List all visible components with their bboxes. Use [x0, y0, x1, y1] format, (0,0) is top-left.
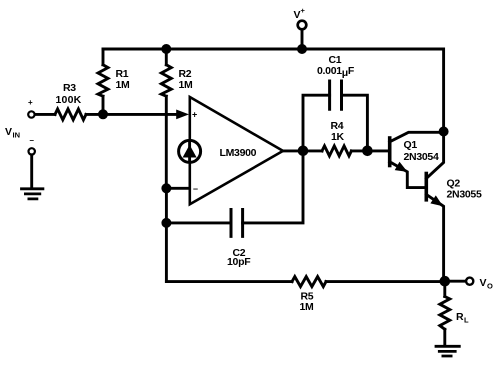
svg-text:1M: 1M [116, 79, 131, 91]
Vo terminal circle [466, 278, 473, 285]
transistor Q2 collector [426, 132, 443, 179]
svg-text:V: V [294, 9, 301, 21]
svg-text:Q1: Q1 [404, 139, 418, 151]
node R1 bottom junction dot [98, 109, 108, 119]
input - terminal circle [29, 148, 35, 154]
transistor Q1 collector [390, 132, 444, 142]
wire RL to ground [443, 329, 446, 345]
V+ terminal stem wire [301, 30, 304, 49]
wire top rail from R1 top to right corner down to Q1/Q2 collector node [103, 49, 444, 132]
svg-text:+: + [301, 6, 306, 15]
svg-text:2N3054: 2N3054 [404, 151, 439, 163]
transistor Q1 emitter [390, 162, 425, 188]
node C2 junction dot [161, 218, 171, 228]
op-amp U1 LM3900 triangle [190, 97, 283, 204]
current source internal stem [188, 141, 191, 162]
resistor R2 [161, 49, 171, 188]
svg-text:–: – [30, 136, 35, 145]
svg-text:10pF: 10pF [227, 256, 251, 268]
wire input - to ground [30, 155, 33, 188]
svg-text:R3: R3 [63, 82, 76, 94]
Q2 emitter arrow [430, 195, 443, 206]
svg-text:–: – [193, 184, 198, 194]
capacitor C1 plates [330, 81, 342, 109]
svg-text:+: + [28, 98, 33, 107]
svg-text:V: V [480, 277, 487, 289]
ground RL [436, 346, 459, 356]
wire R3 to node [86, 113, 177, 116]
svg-text:+: + [192, 110, 197, 120]
ground input [22, 189, 43, 199]
wire R5 to output node [326, 280, 445, 283]
node R4 right junction dot [362, 146, 373, 157]
capacitor C2 plates [231, 210, 243, 237]
node output junction dot [298, 146, 309, 157]
capacitor C1 left lead [303, 95, 330, 151]
wire R2 bus down to bottom rail corner [165, 188, 168, 281]
Q1 emitter arrow [395, 162, 408, 172]
transistor Q1 base bar [388, 138, 392, 166]
svg-text:LM3900: LM3900 [220, 147, 257, 159]
wire VIN+ to R3 [35, 113, 55, 116]
bottom rail wire minus bus to R5 [166, 280, 292, 283]
wire minus input [166, 187, 189, 190]
current source arrow [183, 145, 197, 158]
wire op-amp output to R4 [283, 149, 322, 152]
resistor RL [440, 297, 450, 330]
svg-text:O: O [487, 282, 493, 291]
svg-text:2N3055: 2N3055 [447, 189, 482, 201]
node minus input junction dot [161, 183, 171, 193]
capacitor C1 right lead [342, 95, 368, 151]
svg-text:L: L [464, 316, 469, 325]
svg-text:0.001μF: 0.001μF [317, 65, 355, 79]
svg-text:1M: 1M [179, 79, 194, 91]
node R2 top junction dot [161, 44, 171, 54]
svg-text:V: V [5, 126, 12, 138]
svg-text:1M: 1M [300, 301, 315, 313]
wire node to Vo terminal [445, 280, 466, 283]
input + terminal circle [28, 111, 34, 117]
svg-text:IN: IN [13, 131, 21, 140]
transistor Q2 emitter [426, 195, 443, 282]
resistor R3 [55, 109, 86, 120]
current source circle inside op-amp [179, 140, 201, 162]
V+ terminal circle [298, 21, 307, 30]
node V+ junction dot [297, 44, 307, 54]
svg-text:R: R [456, 311, 464, 323]
resistor R4 [322, 146, 351, 156]
capacitor C2 left lead [166, 221, 231, 224]
svg-text:1K: 1K [331, 131, 345, 143]
wire node to RL [443, 281, 446, 296]
node collectors junction dot [439, 127, 449, 137]
capacitor C2 right lead [243, 151, 303, 223]
resistor R5 [292, 277, 326, 287]
arrowhead into + input [176, 110, 189, 120]
node Vo junction dot [440, 276, 451, 287]
transistor Q2 base bar [424, 174, 428, 200]
wire R4 to Q1 base [351, 149, 388, 152]
svg-text:100K: 100K [56, 94, 82, 106]
resistor R1 [98, 49, 108, 114]
